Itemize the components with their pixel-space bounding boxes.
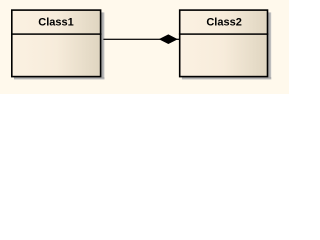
svg-text:Class1: Class1 bbox=[38, 17, 73, 29]
svg-text:Class2: Class2 bbox=[206, 17, 241, 29]
